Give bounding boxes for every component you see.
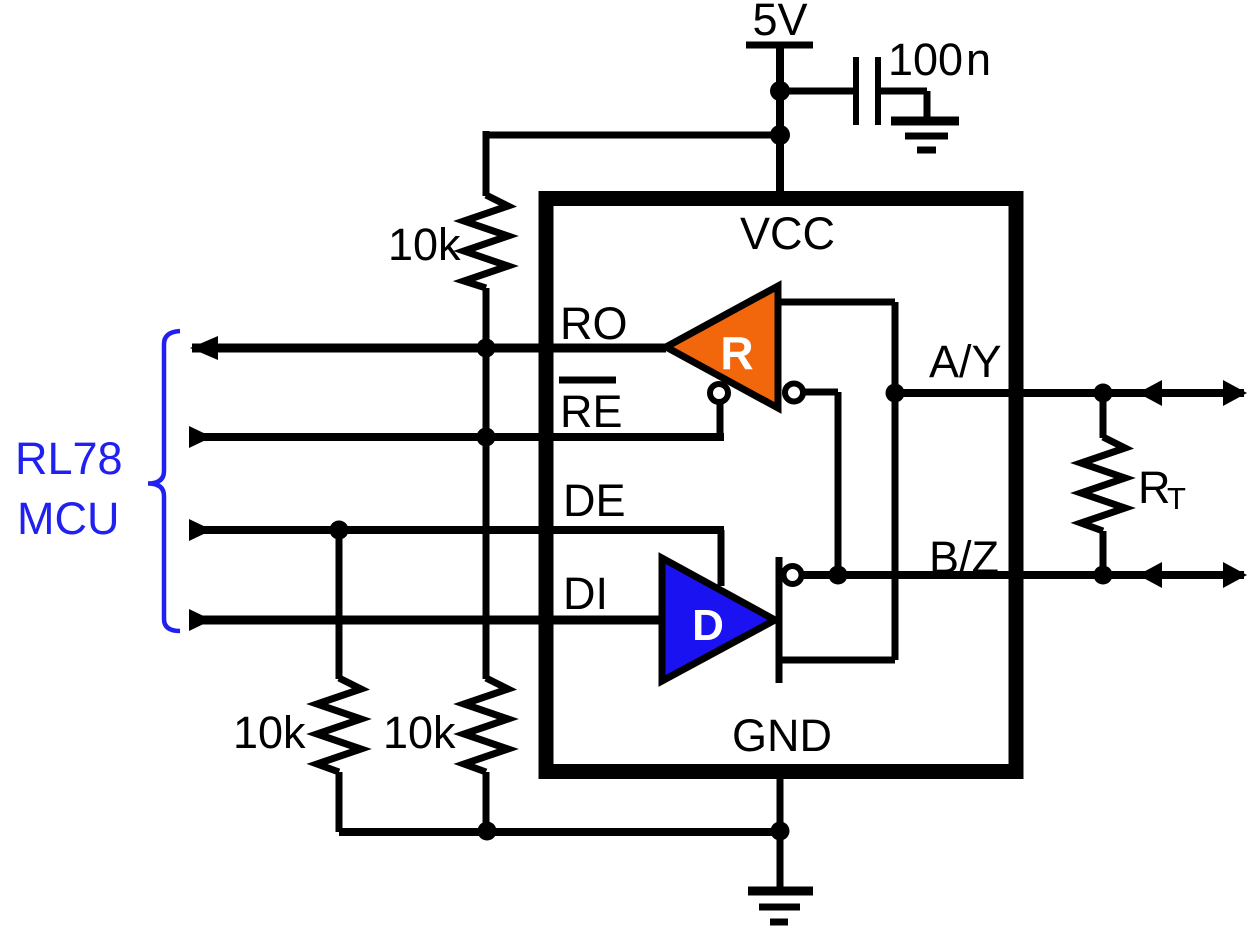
svg-text:10k: 10k (383, 707, 456, 758)
svg-text:5V: 5V (752, 0, 807, 45)
svg-text:T: T (1167, 481, 1186, 516)
svg-text:10k: 10k (388, 219, 461, 270)
svg-text:DI: DI (563, 568, 608, 619)
svg-text:RO: RO (560, 298, 628, 349)
svg-text:D: D (692, 601, 724, 650)
svg-text:MCU: MCU (17, 493, 119, 544)
svg-text:10k: 10k (233, 707, 306, 758)
svg-text:B/Z: B/Z (929, 532, 999, 583)
svg-text:A/Y: A/Y (929, 336, 1002, 387)
svg-text:VCC: VCC (740, 208, 835, 259)
svg-text:GND: GND (732, 710, 832, 761)
svg-text:RL78: RL78 (15, 433, 123, 484)
svg-text:R: R (1138, 462, 1171, 513)
svg-text:DE: DE (563, 475, 626, 526)
svg-text:n: n (966, 34, 991, 85)
svg-text:RE: RE (560, 386, 623, 437)
svg-text:100: 100 (888, 34, 963, 85)
svg-text:R: R (720, 327, 753, 379)
